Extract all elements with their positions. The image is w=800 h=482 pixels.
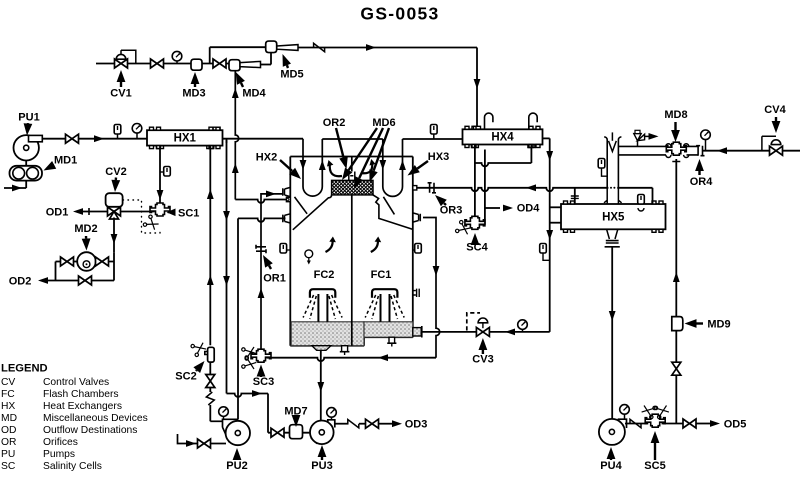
svg-text:SC: SC bbox=[1, 461, 16, 472]
vent channel right wall bbox=[618, 137, 621, 188]
heat exchanger HX3 U-tube bbox=[383, 139, 403, 196]
wire down to PU3 suction bbox=[267, 394, 269, 433]
wire U-tube bridge bbox=[322, 138, 383, 140]
wire HX4 outlet down x=549.7 bbox=[549, 138, 551, 332]
wire vent duct bottom bbox=[618, 154, 666, 156]
control valve CV4 bbox=[770, 146, 783, 155]
gauge PU3 bbox=[331, 417, 333, 420]
svg-text:OD4: OD4 bbox=[517, 203, 541, 215]
flow arrow down bbox=[223, 211, 230, 221]
heat exchanger HX5 bbox=[561, 204, 666, 229]
flow arrow down bbox=[546, 151, 553, 161]
valve before MD7 bbox=[271, 428, 284, 437]
orifice OR3 bbox=[428, 183, 436, 193]
flow arrow up bbox=[258, 288, 265, 298]
CV3 dashed bracket bbox=[467, 313, 480, 331]
HX5 bottom port bbox=[607, 229, 618, 239]
flow arrow right bbox=[12, 185, 22, 192]
FC2 drain stub bbox=[342, 346, 348, 352]
gauge near CV3 bbox=[522, 329, 524, 332]
svg-text:SC1: SC1 bbox=[178, 208, 199, 220]
svg-text:Pumps: Pumps bbox=[43, 449, 75, 460]
wire riser to MD5 bbox=[209, 47, 211, 63]
vent funnel bbox=[609, 141, 617, 152]
flow arrow up bbox=[207, 275, 214, 285]
svg-text:PU3: PU3 bbox=[311, 460, 332, 472]
wire CV4 pilot bracket bbox=[762, 136, 776, 151]
flow arrow up bbox=[673, 272, 680, 282]
leader OR4 bbox=[698, 171, 700, 175]
flow arrow up out of HX2 bbox=[319, 160, 326, 170]
svg-text:Heat Exchangers: Heat Exchangers bbox=[43, 401, 122, 412]
chamber nozzle lower right bbox=[413, 213, 421, 222]
svg-text:OR1: OR1 bbox=[263, 273, 286, 285]
flow arrow left bbox=[505, 329, 515, 336]
leader CV2 bbox=[115, 178, 118, 181]
PU4 casing bbox=[600, 419, 626, 443]
HX1 nozzle stubs bbox=[157, 127, 221, 148]
svg-text:FC1: FC1 bbox=[371, 269, 392, 281]
svg-text:PU: PU bbox=[1, 449, 15, 460]
wire PU2 discharge x=238 bbox=[237, 218, 239, 419]
wire suction inlet bbox=[4, 187, 26, 189]
svg-text:MD3: MD3 bbox=[182, 88, 205, 100]
svg-text:Flash Chambers: Flash Chambers bbox=[43, 389, 119, 400]
chamber port upper right bbox=[413, 186, 417, 190]
spray nozzle FC2 bbox=[310, 289, 335, 298]
leader MD1 bbox=[53, 164, 54, 167]
flow arrow OD4 bbox=[503, 205, 513, 212]
PU2 casing bbox=[223, 419, 239, 442]
svg-text:MD7: MD7 bbox=[284, 406, 307, 418]
chamber capped port right bbox=[413, 289, 419, 297]
PU3 casing bbox=[311, 420, 335, 444]
svg-text:PU4: PU4 bbox=[600, 460, 622, 472]
svg-text:MD6: MD6 bbox=[372, 117, 395, 129]
leader MD5 bbox=[287, 65, 288, 68]
svg-text:MD1: MD1 bbox=[54, 155, 77, 167]
svg-text:OR4: OR4 bbox=[690, 176, 714, 188]
wire HX1 to SC2 x=210.3 bbox=[209, 146, 211, 346]
svg-text:MD4: MD4 bbox=[242, 88, 266, 100]
sensor bottle at vent channel bbox=[598, 159, 605, 169]
svg-text:MD2: MD2 bbox=[74, 223, 97, 235]
leader MD6 a bbox=[349, 128, 377, 170]
flash chamber left floor bbox=[290, 345, 364, 347]
chamber nozzle upper left bbox=[283, 187, 291, 196]
vapor swirl upper right bbox=[361, 162, 372, 173]
wire down into HX4 bbox=[476, 48, 478, 127]
leader OR2 bbox=[336, 128, 344, 157]
flow arrow left bbox=[378, 354, 388, 361]
leader MD3 bbox=[194, 84, 196, 87]
valve above OD5 bbox=[672, 362, 681, 375]
line break dots bbox=[608, 186, 617, 190]
wire bbox=[209, 388, 211, 393]
sensor on PU1 line bbox=[117, 134, 119, 139]
scissors SC3 upper bbox=[241, 344, 257, 360]
leader OR3 bbox=[444, 203, 446, 205]
line break PU4 bbox=[630, 419, 641, 427]
wire chamber vent to MD4 x=235.3 bbox=[235, 72, 238, 200]
heat exchanger HX1 bbox=[147, 130, 223, 145]
sensor bottle FC2 wall bbox=[280, 244, 287, 254]
flow arrow OD1 bbox=[73, 208, 83, 215]
salinity cell SC3 bbox=[251, 349, 271, 362]
wire PU3 suction line bbox=[268, 432, 311, 434]
valve on PU1 discharge bbox=[66, 134, 79, 143]
wire to PU2 casing bbox=[210, 420, 222, 422]
svg-text:CV4: CV4 bbox=[764, 104, 786, 116]
wire CV1 pilot bracket bbox=[121, 50, 136, 63]
leader MD7 bbox=[295, 415, 297, 418]
pump PU1 bbox=[14, 135, 39, 160]
wire vent duct top bbox=[618, 145, 666, 147]
flow arrow down bbox=[157, 190, 164, 200]
wire MD8 to OR4 duct bbox=[687, 146, 699, 155]
wire chamber blowdown x=436 bbox=[423, 218, 440, 358]
wire to OD1 bbox=[78, 211, 108, 213]
flash chamber top bbox=[290, 156, 413, 158]
svg-text:HX3: HX3 bbox=[428, 151, 449, 163]
leader HX3 bbox=[417, 161, 428, 169]
FC1 drain stub bbox=[389, 337, 395, 343]
leader MD8 bbox=[674, 122, 676, 130]
leader HX2 bbox=[280, 160, 292, 171]
relief valve stem bbox=[637, 141, 639, 147]
svg-text:Orifices: Orifices bbox=[43, 437, 78, 448]
svg-text:CV: CV bbox=[1, 377, 15, 388]
flow arrow OD3 bbox=[392, 420, 402, 427]
pump PU3 bbox=[310, 421, 334, 445]
wire HX1 outlet bbox=[223, 138, 304, 140]
svg-text:OD2: OD2 bbox=[9, 276, 32, 288]
svg-text:OD3: OD3 bbox=[405, 419, 428, 431]
svg-text:MD5: MD5 bbox=[280, 69, 303, 81]
svg-text:OD1: OD1 bbox=[46, 207, 69, 219]
salinity cell SC1 bbox=[150, 203, 170, 216]
sensor on HX4 outlet line bbox=[540, 244, 547, 254]
vent hook on HX4 bbox=[529, 113, 537, 129]
svg-text:HX2: HX2 bbox=[256, 152, 277, 164]
chamber divider bbox=[351, 180, 353, 345]
wire top header to HX4 bbox=[298, 47, 477, 49]
gauge PU2 bbox=[223, 416, 225, 419]
wire CV4 inlet bbox=[783, 150, 800, 152]
flow arrow down bbox=[433, 266, 440, 276]
wire into MD1 bbox=[25, 181, 27, 189]
vapor swirl upper left bbox=[330, 163, 342, 176]
flash chamber right floor bbox=[364, 336, 413, 338]
wire HX1 outlet to PU2 suction x=226.5 bbox=[226, 140, 228, 394]
FC2 drain funnel bbox=[312, 346, 331, 351]
scissors SC3 lower bbox=[241, 355, 257, 371]
wire HX1 to SC1 bbox=[159, 146, 161, 206]
orifice OR1 bbox=[256, 245, 266, 253]
leader SC5 bbox=[654, 443, 656, 460]
line break OD3 bbox=[348, 420, 359, 428]
orifice OR4 bbox=[696, 146, 704, 156]
flow arrow down into HX2 bbox=[300, 160, 307, 170]
flow arrow left bbox=[717, 147, 727, 154]
instrument in FC2 bbox=[305, 250, 313, 258]
liquid pool FC2 bbox=[291, 322, 364, 346]
svg-text:Outflow Destinations: Outflow Destinations bbox=[43, 425, 137, 436]
svg-text:SC2: SC2 bbox=[175, 371, 196, 383]
flow arrow up bbox=[232, 88, 239, 98]
miscellaneous device MD8 bbox=[666, 142, 686, 155]
leader MD6 b bbox=[359, 128, 383, 178]
flow arrow right bbox=[266, 191, 276, 198]
leader PU1 bbox=[27, 122, 29, 125]
wire below SC2 bbox=[209, 362, 211, 375]
wire MD4 outlet bbox=[261, 64, 272, 66]
gauge on PU1 line bbox=[136, 133, 138, 139]
flow arrow OD2 bbox=[38, 277, 48, 284]
valve below SC2 bbox=[206, 375, 215, 388]
miscellaneous device MD9 bbox=[672, 317, 683, 331]
spray nozzle FC1 bbox=[372, 289, 397, 298]
MD8 flange bumps bbox=[666, 144, 689, 158]
line break symbol bbox=[314, 43, 325, 51]
wire down to MD2 bbox=[113, 218, 115, 253]
gauge on CV1 line bbox=[176, 61, 178, 64]
flash chamber left wall bbox=[289, 157, 291, 346]
gauge on CV4 line bbox=[705, 140, 707, 151]
svg-text:HX1: HX1 bbox=[174, 133, 197, 145]
miscellaneous device MD3 bbox=[191, 59, 202, 70]
leader SC4 bbox=[474, 243, 476, 245]
svg-text:CV2: CV2 bbox=[105, 166, 126, 178]
relief valve bbox=[634, 134, 645, 141]
scissors SC5 right bbox=[654, 403, 670, 419]
svg-text:HX5: HX5 bbox=[602, 211, 625, 223]
svg-text:SC3: SC3 bbox=[253, 376, 274, 388]
flow arrow down bbox=[223, 276, 230, 286]
wire HX4 to SC4 x=474.9 bbox=[474, 145, 476, 221]
leader CV1 bbox=[120, 82, 122, 87]
leader MD2 bbox=[85, 236, 87, 239]
wire MD2 bypass bbox=[43, 280, 114, 282]
valve on MD2 bypass bbox=[79, 276, 92, 285]
svg-text:CV1: CV1 bbox=[110, 88, 131, 100]
pump PU4 bbox=[599, 419, 625, 445]
flow arrow right bbox=[186, 440, 196, 447]
wire vent to chamber mid port bbox=[235, 200, 286, 203]
vapor swirl FC2 bbox=[326, 240, 333, 252]
HX5 top ports bbox=[604, 188, 622, 204]
valve before MD4 bbox=[213, 59, 226, 68]
flow arrow OD5 bbox=[710, 420, 720, 427]
svg-text:MD9: MD9 bbox=[707, 319, 730, 331]
MD4 ejector cone bbox=[240, 61, 261, 67]
scissors SC2 bbox=[190, 340, 207, 357]
MD5 ejector cone bbox=[277, 45, 298, 51]
flash chamber right wall bbox=[412, 157, 414, 328]
control valve CV1 bbox=[115, 59, 128, 68]
vent channel left wall bbox=[604, 137, 607, 188]
chamber vent port left bbox=[286, 197, 290, 201]
orifice OR2 bbox=[346, 172, 358, 181]
svg-text:OR3: OR3 bbox=[440, 205, 463, 217]
leader PU4 bbox=[610, 459, 612, 460]
svg-text:CV3: CV3 bbox=[472, 354, 493, 366]
svg-text:OR2: OR2 bbox=[323, 117, 346, 129]
flow arrow relief bbox=[649, 133, 659, 140]
wire FC2 drain to PU3 bbox=[320, 350, 322, 420]
salinity cell SC4 bbox=[465, 216, 485, 229]
svg-text:FC2: FC2 bbox=[314, 269, 335, 281]
valve PU2 suction bbox=[198, 439, 211, 448]
flexible break symbol bbox=[206, 392, 214, 405]
wire CV1 main line y=63.5 bbox=[96, 63, 229, 65]
scissors SC4 bbox=[455, 220, 472, 237]
wire HX5 top right port bbox=[652, 188, 654, 204]
valve OD5 bbox=[683, 419, 696, 428]
chamber outlet stub bbox=[413, 328, 421, 336]
HX4 nozzle stubs bbox=[471, 126, 535, 147]
wire HX4 outlet bbox=[543, 137, 550, 139]
miscellaneous device MD2 bbox=[77, 252, 96, 271]
wire to PU3 suction y=393.5 bbox=[227, 394, 269, 397]
svg-text:MD8: MD8 bbox=[664, 109, 687, 121]
gauge PU4 bbox=[624, 414, 626, 419]
wire to chamber lower-left nozzle bbox=[238, 218, 286, 221]
svg-text:PU1: PU1 bbox=[18, 112, 39, 124]
svg-text:HX: HX bbox=[1, 401, 15, 412]
wire PU1 discharge to HX1 bbox=[42, 138, 147, 140]
svg-text:FC: FC bbox=[1, 389, 15, 400]
leader MD4 bbox=[241, 83, 243, 87]
svg-text:OR: OR bbox=[1, 437, 16, 448]
leader MD6 c bbox=[374, 128, 389, 171]
svg-text:SC5: SC5 bbox=[644, 460, 665, 472]
svg-text:Miscellaneous Devices: Miscellaneous Devices bbox=[43, 413, 148, 424]
wire PU4 discharge bbox=[625, 423, 648, 425]
flow arrow up bbox=[207, 189, 214, 199]
wire from HX5 lower left port bbox=[550, 222, 561, 224]
flow arrow down bbox=[609, 311, 616, 321]
sensor bottle over HX5 bbox=[638, 195, 645, 205]
vent hook on HX4 bbox=[485, 113, 493, 129]
salinity cell SC2 bbox=[205, 352, 211, 355]
svg-text:Control Valves: Control Valves bbox=[43, 377, 109, 388]
flow arrow right bbox=[252, 390, 262, 397]
flow arrow down bbox=[474, 79, 481, 89]
wire to PU2 bbox=[209, 405, 211, 421]
wire SC5 to OD5 valve bbox=[662, 423, 684, 425]
flow arrow down bbox=[111, 234, 118, 244]
svg-text:SC4: SC4 bbox=[466, 242, 488, 254]
signal line CV2 to SC1 bbox=[123, 200, 160, 233]
flow arrow up bbox=[232, 163, 239, 173]
leader PU2 bbox=[236, 459, 238, 461]
wire MD1 to PU1 bbox=[25, 160, 27, 166]
flow arrow down into HX3 bbox=[379, 160, 386, 170]
wire SC3 recirculation y=357.7 bbox=[267, 358, 437, 361]
leader SC2 bbox=[195, 369, 198, 372]
svg-text:OD5: OD5 bbox=[724, 419, 747, 431]
svg-text:OD: OD bbox=[1, 425, 16, 436]
wire HX4 second tube x=484.9 bbox=[484, 150, 486, 225]
scissors SC5 left bbox=[641, 403, 657, 419]
wire HX4 bottom U-turn bbox=[475, 163, 532, 166]
wire MD8 to OD5 junction x=676.3 bbox=[675, 159, 677, 424]
control valve CV3 bbox=[476, 327, 489, 336]
wire HX5 top port 1 bbox=[574, 188, 576, 204]
tick on OD1 line bbox=[88, 208, 90, 215]
sensor bottle FC1 wall bbox=[415, 244, 422, 254]
control valve CV2 actuator bbox=[106, 193, 123, 207]
chamber nozzle lower left bbox=[283, 214, 291, 223]
FC2 roof slope bbox=[293, 195, 332, 230]
valve right of MD2 bbox=[96, 257, 109, 266]
salinity cell SC5 bbox=[645, 414, 665, 427]
svg-text:HX4: HX4 bbox=[491, 132, 514, 144]
wire into HX5 upper left port bbox=[550, 206, 561, 208]
leader SC3 bbox=[260, 375, 262, 378]
vapor swirl FC1 bbox=[371, 240, 378, 252]
wire CV3 line y=331.9 bbox=[423, 331, 550, 333]
valve left of MD2 bbox=[61, 257, 74, 266]
svg-text:Salinity Cells: Salinity Cells bbox=[43, 461, 102, 472]
leader PU3 bbox=[321, 457, 323, 460]
FC2 baffle bbox=[295, 197, 308, 214]
wire HX5 to chamber y=187.8 bbox=[417, 188, 653, 191]
wire MD2 right down bbox=[113, 252, 115, 280]
svg-text:GS-0053: GS-0053 bbox=[360, 4, 439, 24]
wire to OD4 bbox=[485, 207, 500, 209]
wire MD5 inlet y=47.2 bbox=[210, 46, 267, 48]
flow arrow right bbox=[94, 135, 104, 142]
miscellaneous device MD5 bbox=[266, 41, 277, 53]
liquid pool FC1 bbox=[364, 322, 413, 337]
flow arrow up out of HX3 bbox=[399, 160, 406, 170]
wire PU2 suction bbox=[178, 434, 227, 444]
PU1 discharge flange bbox=[29, 135, 43, 141]
leader OR1 bbox=[269, 265, 271, 269]
pump PU2 bbox=[226, 421, 250, 445]
svg-text:MD: MD bbox=[1, 413, 17, 424]
demister MD6 bbox=[332, 180, 373, 195]
flow arrow left bbox=[526, 184, 536, 191]
wire to HX4 bbox=[403, 138, 463, 140]
leader CV3 bbox=[482, 350, 484, 354]
HX5 port flange bbox=[571, 196, 579, 198]
sensor bottle near SC1 bbox=[164, 167, 171, 177]
FC1 roof profile bbox=[373, 195, 413, 230]
valve OD3 bbox=[366, 419, 379, 428]
wire SC3 to chamber top nozzle x=261 bbox=[261, 194, 283, 351]
leader SC1 bbox=[174, 211, 177, 213]
sensor on HX4 inlet line bbox=[433, 134, 435, 139]
leader MD9 bbox=[697, 322, 704, 324]
wire MD2 bypass left bbox=[55, 262, 57, 281]
wire HX5 to PU4 x=612.2 bbox=[611, 248, 613, 420]
FC1 baffle bbox=[383, 197, 394, 215]
scissors SC1 bbox=[143, 214, 161, 232]
flow arrow right bbox=[366, 44, 376, 51]
wire valve to SC1 bbox=[121, 211, 155, 213]
wire OR4 to CV4 bbox=[703, 150, 770, 152]
heat exchanger HX4 bbox=[463, 129, 543, 144]
three-way valve under CV2 bbox=[108, 207, 121, 216]
flow arrow down bbox=[317, 382, 324, 392]
miscellaneous device MD7 bbox=[290, 425, 303, 439]
svg-text:PU2: PU2 bbox=[226, 460, 247, 472]
wire branch down from HX1 outlet bbox=[226, 139, 228, 143]
chamber divider upper bbox=[351, 157, 353, 172]
